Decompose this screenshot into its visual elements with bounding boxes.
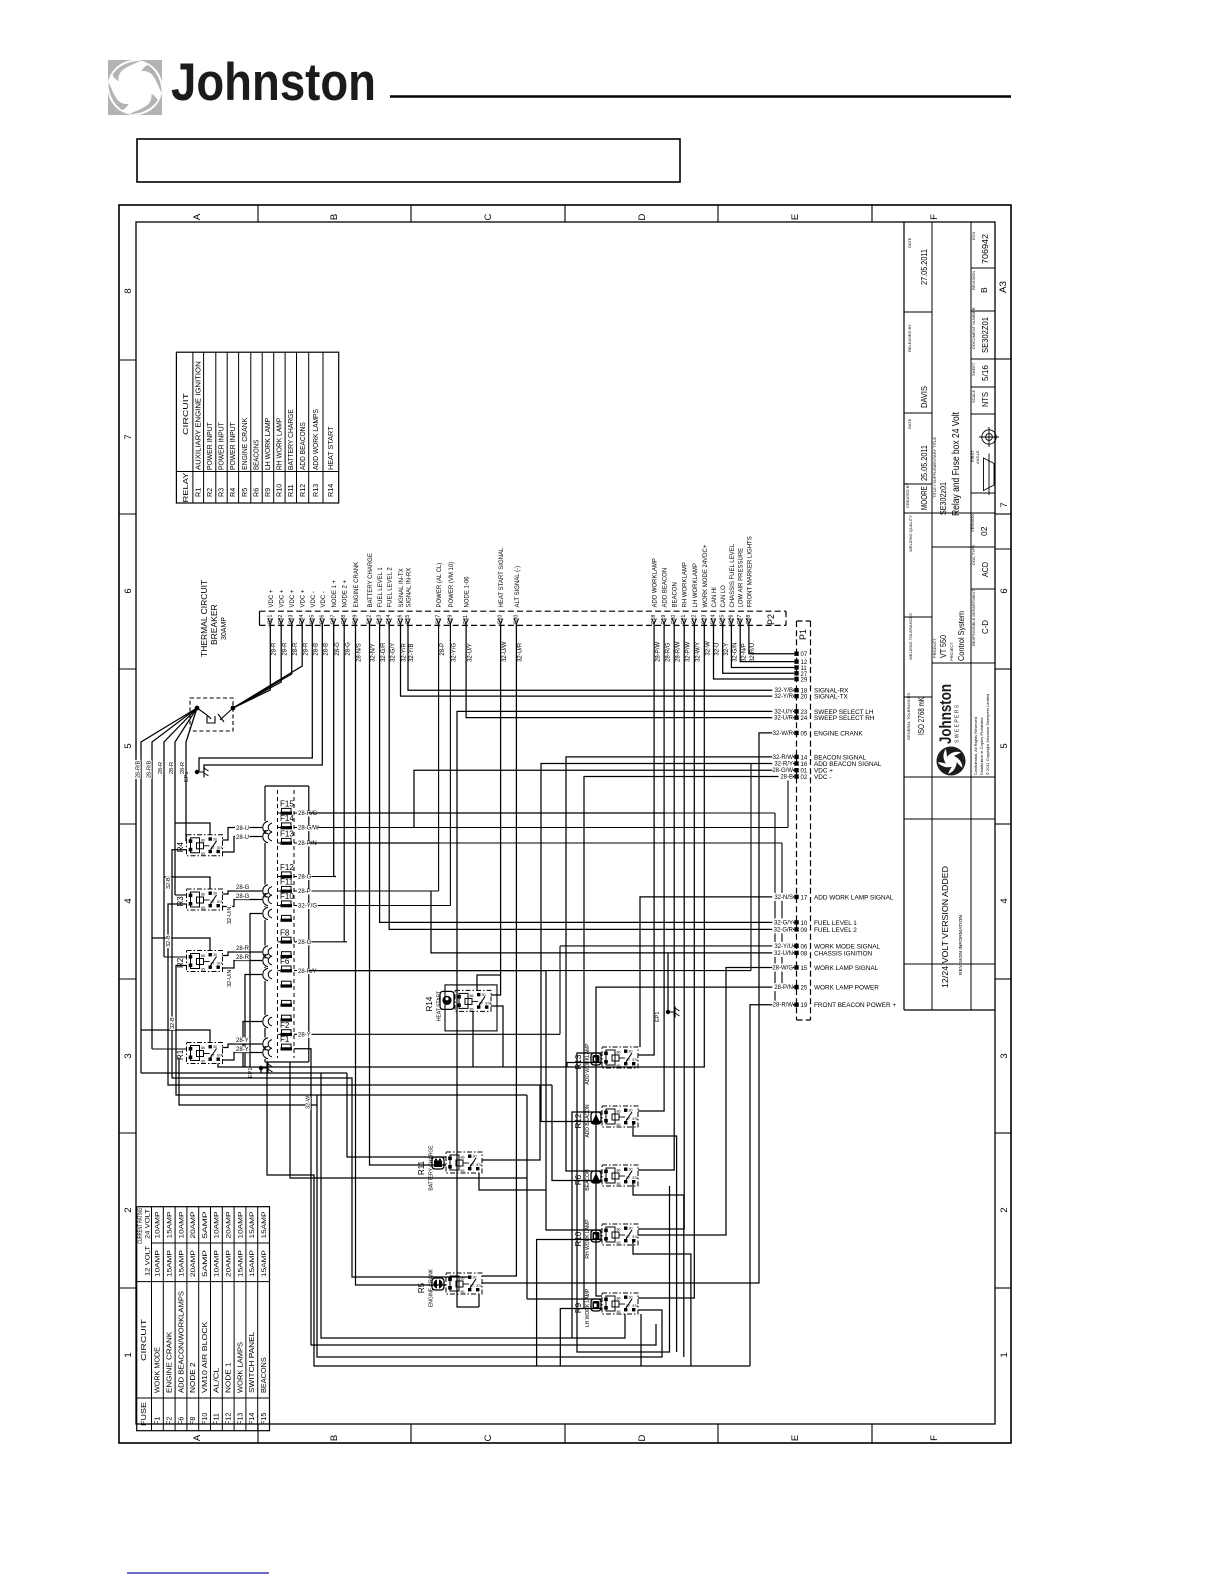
svg-text:LOW AIR PRESSURE: LOW AIR PRESSURE (739, 548, 745, 608)
svg-text:85: 85 (201, 968, 205, 972)
svg-text:6: 6 (999, 588, 1010, 593)
svg-text:32-Y: 32-Y (724, 643, 730, 656)
svg-text:THERMAL CIRCUIT: THERMAL CIRCUIT (199, 580, 209, 657)
wire fuse F15 28-R/G to add beacon column (309, 812, 664, 814)
svg-text:SWITCH PANEL: SWITCH PANEL (247, 1332, 256, 1393)
ground EP1 near thermal breaker (195, 770, 199, 774)
svg-text:BEACON: BEACON (673, 582, 679, 607)
wire fuse F14 to P1 pin01 VDC+ (414, 770, 794, 827)
svg-text:5AMP: 5AMP (202, 1249, 209, 1277)
svg-text:85: 85 (201, 906, 205, 910)
connector P1 pin 24 SWEEP SELECT RH (794, 715, 798, 719)
wire from fuse F13 28-P/N (294, 842, 782, 844)
frame row dividers left band (119, 359, 136, 361)
svg-text:NODE 1-06: NODE 1-06 (465, 576, 471, 608)
svg-text:BEACONS: BEACONS (259, 1357, 268, 1393)
svg-text:F: F (929, 214, 940, 220)
svg-text:R3: R3 (217, 488, 226, 497)
svg-text:12 VOLT: 12 VOLT (145, 1246, 152, 1276)
spare fuse position (282, 981, 292, 985)
wire fuse F6 28-R/Y (309, 970, 546, 972)
connector P2 pin C15 SIGNAL IN-RX (406, 619, 410, 625)
relay R10 RH WORK LAMP (602, 1224, 639, 1245)
wire fuse bank bottom leads (267, 1062, 750, 1366)
svg-text:CAN LO: CAN LO (721, 585, 727, 608)
connector P2 pin C06 VDC - (320, 619, 324, 625)
svg-text:ECN: ECN (971, 231, 976, 240)
svg-text:32-Y/R: 32-Y/R (402, 643, 408, 662)
svg-text:C06: C06 (319, 615, 325, 625)
svg-text:10AMP: 10AMP (155, 1249, 162, 1277)
svg-text:SIGNAL-TX: SIGNAL-TX (814, 694, 848, 701)
svg-text:30: 30 (629, 1109, 633, 1113)
wire C14 fuel level 2 to P1 pin09 (389, 625, 794, 929)
svg-text:R9: R9 (574, 1302, 583, 1313)
svg-text:28-P: 28-P (440, 643, 446, 656)
svg-text:R2: R2 (205, 488, 214, 497)
wire C16 signal TX to P1 pin20 (401, 625, 795, 696)
relay R6 BEACON (602, 1165, 639, 1186)
svg-text:RELAY: RELAY (181, 472, 190, 502)
wire labels 28-U 28-G 28-R 28-Y at relay outputs (235, 825, 249, 831)
wire R12 output (633, 1124, 677, 1352)
svg-text:RELEASED BY: RELEASED BY (907, 324, 912, 352)
svg-text:ENGINE CRANK: ENGINE CRANK (814, 730, 863, 737)
svg-text:32-U/N: 32-U/N (227, 907, 233, 924)
svg-text:29: 29 (801, 678, 808, 684)
svg-text:1: 1 (123, 1352, 134, 1357)
svg-text:28-R/Y: 28-R/Y (298, 969, 317, 975)
connector P2 pin C23 WORK MODE 24VDC+ (702, 619, 706, 625)
svg-text:P2: P2 (766, 614, 776, 625)
svg-text:ADD BEACON/WORKLAMPS: ADD BEACON/WORKLAMPS (176, 1291, 185, 1393)
connector P2 pin C18 ADD WORKLAMP (652, 619, 656, 625)
wire from fuse F14 28-G/W (294, 827, 788, 829)
connector P1 pin 17 ADD WORK LAMP SIGNAL (794, 895, 798, 899)
wire C07 NODE1+ to fuse F12 (334, 625, 336, 876)
svg-text:87: 87 (626, 1304, 630, 1308)
svg-text:C28: C28 (746, 615, 752, 625)
svg-text:28-G: 28-G (298, 875, 312, 881)
svg-text:87A: 87A (633, 1176, 640, 1180)
svg-text:C16: C16 (398, 615, 404, 625)
svg-text:85: 85 (201, 852, 205, 856)
svg-text:NODE 2 +: NODE 2 + (343, 579, 349, 607)
svg-text:32-W: 32-W (306, 1095, 312, 1109)
wire relay R5 to P1 pin05 engine crank (482, 733, 794, 1283)
svg-text:87: 87 (211, 900, 215, 904)
svg-text:B: B (329, 214, 340, 220)
svg-text:DOCUMENT NUMBER: DOCUMENT NUMBER (971, 307, 976, 349)
svg-text:R12: R12 (574, 1113, 583, 1128)
svg-text:SWEEPERS: SWEEPERS (955, 703, 961, 743)
svg-text:R6: R6 (574, 1174, 583, 1185)
svg-text:FUEL LEVEL 2: FUEL LEVEL 2 (814, 927, 857, 934)
svg-text:32-W/Y: 32-W/Y (696, 642, 702, 662)
svg-text:16: 16 (801, 762, 808, 768)
svg-text:C17: C17 (436, 615, 442, 625)
svg-text:R14: R14 (326, 484, 335, 497)
svg-text:F10: F10 (200, 1413, 209, 1425)
connector P2 pin C20 BEACON (672, 619, 676, 625)
wire P1 pin25 work lamp power to relay R9 (596, 987, 794, 1296)
wire x527 trunk to relay R5 and R9 (526, 1095, 528, 1299)
svg-text:FUEL LEVEL 2: FUEL LEVEL 2 (388, 567, 394, 608)
svg-text:VDC +: VDC + (290, 589, 296, 607)
connector P2 pin C17 POWER (AL CL) (436, 619, 440, 625)
wire R2 feed into coil (164, 956, 187, 958)
svg-text:C12: C12 (367, 615, 373, 625)
svg-text:28-B: 28-B (780, 775, 793, 781)
wire from fuse F11 28-P (294, 890, 439, 892)
connector P1 pin 25 WORK LAMP POWER (794, 985, 798, 989)
svg-text:R5: R5 (240, 488, 249, 497)
svg-text:WELDING TOLERANCES: WELDING TOLERANCES (908, 613, 913, 660)
svg-text:32-U/N: 32-U/N (227, 970, 233, 987)
indicator icon for R12 (591, 1112, 601, 1124)
svg-text:C03: C03 (289, 615, 295, 625)
connector P1 pin 20 SIGNAL-TX (794, 694, 798, 698)
connector P2 pin C04 VDC + (300, 619, 304, 625)
svg-text:R12: R12 (298, 484, 307, 497)
svg-text:87A: 87A (486, 1001, 493, 1005)
spare fuse position (282, 1015, 292, 1019)
svg-text:20AMP: 20AMP (190, 1249, 197, 1277)
svg-text:5AMP: 5AMP (202, 1211, 209, 1239)
wire EP1 ground stub near P1 (667, 953, 669, 1012)
svg-text:R9: R9 (263, 488, 272, 497)
svg-text:87: 87 (470, 1163, 474, 1167)
svg-text:30: 30 (629, 1050, 633, 1054)
svg-text:Relay and Fuse box 24 Volt: Relay and Fuse box 24 Volt (950, 412, 962, 516)
svg-text:30: 30 (473, 1155, 477, 1159)
indicator icon for R10 (591, 1230, 601, 1242)
svg-text:28-R/B: 28-R/B (136, 761, 142, 778)
svg-text:2: 2 (999, 1207, 1010, 1212)
wire fuse F13 28-P/N (309, 842, 439, 844)
wire relay R2 85 return (176, 966, 527, 1096)
svg-text:30: 30 (629, 1296, 633, 1300)
wire relay R4 feed loop (175, 823, 210, 835)
svg-text:A3: A3 (998, 281, 1009, 293)
wire relay R4 85 return (172, 850, 470, 1277)
svg-text:C07: C07 (331, 615, 337, 625)
frame row dividers right band (995, 358, 1011, 360)
wire P1 pin02 VDC- down to relay grounds (584, 777, 794, 1309)
wire relay R11 top feed (347, 1073, 446, 1157)
svg-text:Confidential, All Rights Reser: Confidential, All Rights Reserved (973, 717, 978, 775)
svg-text:87: 87 (626, 1058, 630, 1062)
svg-text:86: 86 (201, 954, 205, 958)
wire C28 to P1 pin07 (749, 625, 794, 653)
title block Johnston Sweepers logo (936, 684, 969, 778)
svg-text:28-R/G: 28-R/G (298, 811, 318, 817)
svg-text:87A: 87A (217, 900, 224, 904)
wire C27 to P1 pin12 (740, 625, 794, 661)
wire from fuse F12 28-G (294, 876, 336, 878)
fuse bank inner dashed rails (277, 790, 279, 1058)
svg-text:C29: C29 (447, 615, 453, 625)
svg-text:F: F (929, 1435, 940, 1441)
svg-text:R14: R14 (425, 996, 434, 1011)
connector P1 pin 02 VDC - (794, 774, 798, 778)
wire R5 output 87a (478, 1295, 480, 1308)
svg-text:Johnston: Johnston (171, 53, 376, 112)
wire relay R1 feed loop (141, 1030, 210, 1043)
fuse legend table (137, 1207, 270, 1431)
wire EP1 ground stub near fuse table (260, 1068, 262, 1073)
svg-text:10AMP: 10AMP (155, 1211, 162, 1239)
relay R14 HEAT START (445, 985, 497, 1031)
svg-text:C22: C22 (691, 615, 697, 625)
wire R11 outputs (482, 1085, 540, 1160)
svg-text:F1: F1 (153, 1417, 162, 1425)
relay R5 ENGINE CRANK (446, 1273, 483, 1294)
svg-text:15AMP: 15AMP (261, 1211, 268, 1239)
indicator icon for R13 (591, 1053, 601, 1065)
svg-text:28-Y: 28-Y (236, 1038, 249, 1044)
svg-text:C04: C04 (299, 615, 305, 625)
svg-text:C14: C14 (386, 615, 392, 625)
svg-text:C19: C19 (661, 615, 667, 625)
svg-text:ADD WORK LAMP SIGNAL: ADD WORK LAMP SIGNAL (814, 894, 894, 901)
fuse F6 in fuse bank (282, 966, 292, 970)
svg-text:28-U: 28-U (236, 826, 249, 832)
svg-text:30: 30 (629, 1227, 633, 1231)
connector P2 pin C28 FRONT MARKER LIGHTS (747, 619, 751, 625)
svg-text:6: 6 (123, 588, 134, 593)
svg-text:BATTERY CHARGE: BATTERY CHARGE (368, 553, 374, 607)
svg-text:30: 30 (629, 1168, 633, 1172)
svg-text:HEAT START: HEAT START (437, 991, 443, 1021)
svg-text:ACD: ACD (980, 562, 990, 577)
svg-text:VDC -: VDC - (311, 591, 317, 607)
svg-text:A: A (192, 213, 203, 220)
fuse F8 in fuse bank (282, 937, 292, 941)
svg-text:WORK MODE SIGNAL: WORK MODE SIGNAL (814, 943, 880, 950)
wire C05 28-B to EP1 ground (199, 625, 312, 772)
wire relay R2 feed loop (152, 938, 210, 951)
svg-text:ANGLE: ANGLE (975, 450, 980, 464)
svg-text:B: B (979, 287, 989, 293)
svg-text:© 2011 Copyright Johnston Swee: © 2011 Copyright Johnston Sweepers Limit… (985, 694, 990, 775)
wire C15 signal RX to P1 pin18 (408, 625, 794, 690)
connector P1 pin 10 FUEL LEVEL 1 (794, 920, 798, 924)
svg-text:HEAT START: HEAT START (326, 426, 335, 470)
empty header box (137, 139, 680, 182)
connector P2 pin C05 VDC - (310, 619, 314, 625)
svg-text:30AMP: 30AMP (221, 617, 228, 640)
svg-text:85: 85 (617, 1123, 621, 1127)
fuse F11 in fuse bank (282, 886, 292, 890)
svg-text:VDC +: VDC + (301, 589, 307, 607)
indicator icon for R11 (432, 1157, 444, 1169)
connector P2 pin C01 VDC + (268, 619, 272, 625)
svg-text:DAVIS: DAVIS (919, 386, 929, 408)
svg-text:R1: R1 (193, 488, 202, 497)
svg-text:F2: F2 (280, 1021, 290, 1030)
wire from fuse F15 28-R/G (294, 812, 775, 814)
svg-text:10AMP: 10AMP (237, 1211, 244, 1239)
svg-text:AL/CL: AL/CL (212, 1368, 221, 1394)
svg-text:R11: R11 (286, 484, 295, 497)
svg-text:C10: C10 (498, 615, 504, 625)
fuse F13 in fuse bank (282, 838, 292, 842)
svg-text:32-U/Y: 32-U/Y (467, 643, 473, 662)
svg-text:CREATED BY: CREATED BY (905, 482, 910, 508)
svg-text:28-P/W: 28-P/W (655, 642, 661, 662)
connector P1 pin 15 WORK LAMP SIGNAL (794, 965, 798, 969)
wire from fuse F2 28-Y (294, 1033, 560, 1035)
wire P1 pin08 chassis ignition (431, 891, 794, 953)
svg-text:R10: R10 (275, 484, 284, 497)
svg-text:10AMP: 10AMP (214, 1211, 221, 1239)
svg-text:28-R/W: 28-R/W (773, 1003, 794, 1009)
svg-text:87: 87 (211, 1054, 215, 1058)
svg-text:8: 8 (123, 288, 134, 293)
svg-text:F8: F8 (188, 1417, 197, 1425)
svg-text:28-G/W: 28-G/W (298, 826, 319, 832)
svg-text:20AMP: 20AMP (190, 1211, 197, 1239)
svg-text:30: 30 (482, 993, 486, 997)
svg-text:28-R/B: 28-R/B (147, 761, 153, 778)
svg-text:02: 02 (979, 526, 989, 536)
svg-text:28-G: 28-G (236, 894, 250, 900)
frame column dividers bottom band (257, 1424, 259, 1443)
svg-text:85: 85 (470, 1007, 474, 1011)
svg-text:F10: F10 (280, 892, 294, 901)
wire trunk y1357 R9 loop (317, 1095, 662, 1357)
svg-text:FUEL LEVEL 1: FUEL LEVEL 1 (378, 567, 384, 608)
svg-text:86: 86 (617, 1051, 621, 1055)
svg-text:87A: 87A (217, 962, 224, 966)
connector P1 pin 12 32-Y (794, 659, 798, 663)
svg-text:C26: C26 (728, 615, 734, 625)
wire relay R3 85 return (168, 904, 552, 1085)
svg-text:F6: F6 (176, 1417, 185, 1425)
svg-text:87: 87 (626, 1117, 630, 1121)
svg-text:CHASSIS FUEL LEVEL: CHASSIS FUEL LEVEL (730, 543, 736, 607)
svg-text:32-B: 32-B (170, 1017, 176, 1029)
svg-text:BEACONS: BEACONS (252, 439, 261, 470)
wire relay R1 output to fuse bracket 28-Y (223, 1044, 263, 1048)
relay R12 ADD BEACON (602, 1106, 639, 1127)
svg-text:86: 86 (617, 1228, 621, 1232)
svg-text:1: 1 (999, 1352, 1010, 1357)
svg-text:HEAT START SIGNAL: HEAT START SIGNAL (499, 547, 505, 607)
wire label 32-W (305, 1097, 311, 1110)
svg-text:C: C (483, 213, 494, 220)
connector P2 pin C11 NODE 1-06 (464, 619, 468, 625)
indicator icon for R5 (432, 1278, 444, 1290)
svg-text:F14: F14 (247, 1413, 256, 1425)
wire C20 beacon to relay R6 (638, 625, 674, 1170)
relay R4 (187, 835, 224, 856)
wire C13 fuel level 1 to P1 pin10 (380, 625, 794, 922)
connector P2 pin C10 HEAT START SIGNAL (498, 619, 502, 625)
svg-text:32-P/W: 32-P/W (685, 642, 691, 662)
svg-text:WORK LAMPS: WORK LAMPS (235, 1342, 244, 1393)
svg-text:15AMP: 15AMP (167, 1211, 174, 1239)
wire TCB right fan to P2 VDC+ pins (233, 625, 270, 708)
connector P2 pin C07 NODE 1 + (332, 619, 336, 625)
svg-text:15AMP: 15AMP (167, 1249, 174, 1277)
fuse F2 in fuse bank (282, 1030, 292, 1034)
svg-text:32-G/N: 32-G/N (733, 643, 739, 662)
svg-text:28-P/N: 28-P/N (298, 841, 317, 847)
fuse F1 in fuse bank (282, 1044, 292, 1048)
connector P2 pin C08 NODE 2 + (342, 619, 346, 625)
svg-text:DATE: DATE (907, 418, 912, 429)
svg-text:32-U/W: 32-U/W (502, 641, 508, 662)
svg-text:WORK LAMP POWER: WORK LAMP POWER (814, 985, 879, 992)
wire relay R3 feed loop (164, 877, 210, 889)
svg-text:12/24 VOLT VERSION ADDED: 12/24 VOLT VERSION ADDED (940, 866, 950, 988)
svg-text:C18: C18 (651, 615, 657, 625)
svg-text:86: 86 (617, 1297, 621, 1301)
wire trunk x321 (321, 1073, 625, 1338)
svg-text:C23: C23 (701, 615, 707, 625)
connector P1 pin 29 32-R/U (794, 677, 798, 681)
svg-text:LH WORK LAMP: LH WORK LAMP (263, 418, 272, 470)
wire C23 work mode bus to relay R1 (218, 625, 704, 1067)
svg-text:RESPONSIBLE DEPARTMENT: RESPONSIBLE DEPARTMENT (971, 589, 976, 646)
svg-text:20AMP: 20AMP (226, 1211, 233, 1239)
svg-text:NODE 2: NODE 2 (188, 1362, 197, 1393)
svg-text:F2: F2 (165, 1417, 174, 1425)
svg-text:VT 550: VT 550 (938, 635, 948, 658)
svg-text:05: 05 (801, 731, 808, 737)
connector P1 pin 23 SWEEP SELECT LH (794, 709, 798, 713)
svg-text:86: 86 (617, 1110, 621, 1114)
svg-text:28-R: 28-R (303, 642, 309, 656)
wire C11 to P1 pin24 (466, 625, 794, 717)
svg-text:28-G: 28-G (298, 940, 312, 946)
svg-text:24: 24 (801, 716, 808, 722)
svg-text:28-R: 28-R (293, 642, 299, 656)
connector P2 pin C29 POWER (VM 10) (448, 619, 452, 625)
svg-text:DOC TYPE: DOC TYPE (971, 544, 976, 565)
svg-text:ENGINE CRANK: ENGINE CRANK (429, 1268, 435, 1307)
wire R14 85 return (472, 1012, 474, 1068)
svg-text:SE302z01: SE302z01 (938, 482, 948, 515)
svg-text:32-G/R: 32-G/R (381, 642, 387, 662)
svg-text:86: 86 (617, 1169, 621, 1173)
svg-text:C13: C13 (377, 615, 383, 625)
wire C12 battery charge to relay R11 (370, 625, 447, 1165)
svg-text:32-G/Y: 32-G/Y (390, 643, 396, 662)
svg-text:2: 2 (123, 1207, 134, 1212)
connector P1 pin 16 ADD BEACON SIGNAL (794, 761, 798, 765)
svg-text:VDC +: VDC + (269, 589, 275, 607)
svg-text:R3: R3 (176, 896, 185, 907)
svg-text:SIGNAL IN-RX: SIGNAL IN-RX (407, 568, 413, 608)
svg-text:24 VOLT: 24 VOLT (145, 1209, 152, 1239)
svg-text:ADD WORKLAMP: ADD WORKLAMP (653, 558, 659, 607)
svg-text:PROJECT: PROJECT (949, 642, 954, 661)
connector P2 pin C19 ADD BEACON (662, 619, 666, 625)
svg-text:87: 87 (479, 1001, 483, 1005)
svg-text:32-G/R: 32-G/R (774, 927, 794, 933)
wire labels 28-R/B 28-R relay feeds (135, 760, 141, 779)
wire R10 output (633, 1242, 691, 1366)
svg-text:F6: F6 (280, 957, 290, 966)
fuse F14 in fuse bank (282, 823, 292, 827)
svg-text:F13: F13 (235, 1413, 244, 1425)
wire P1 pin17 add work lamp signal to relay R13 (640, 897, 794, 1047)
svg-text:C02: C02 (278, 615, 284, 625)
svg-text:PRODUCT: PRODUCT (932, 638, 937, 658)
